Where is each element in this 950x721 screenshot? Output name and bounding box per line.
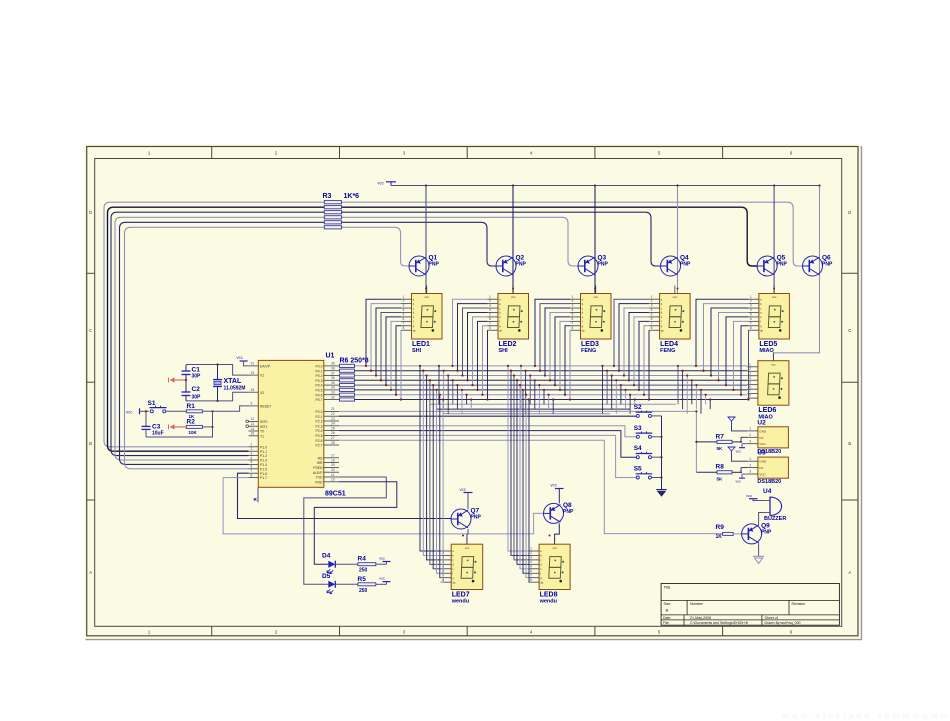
svg-text:vcc: vcc	[237, 355, 243, 360]
svg-text:38: 38	[331, 367, 335, 371]
wires segment taps to LED5 pins	[695, 299, 750, 400]
svg-text:4: 4	[572, 308, 574, 312]
svg-text:vcc: vcc	[425, 295, 430, 299]
svg-text:31: 31	[251, 362, 255, 366]
svg-text:S3: S3	[634, 425, 642, 432]
wire P1.4 net (left bus to R3 row 5 to Q2 base)	[120, 222, 497, 464]
svg-text:vcc: vcc	[511, 295, 516, 299]
transistor Q3 PNP	[578, 255, 608, 277]
svg-text:P0.3: P0.3	[316, 379, 323, 383]
svg-text:R3: R3	[323, 193, 332, 200]
svg-text:S4: S4	[634, 445, 642, 452]
svg-text:PNP: PNP	[680, 262, 691, 268]
wire VCC feed through Q3	[594, 184, 596, 293]
svg-text:PNP: PNP	[516, 262, 527, 268]
svg-text:1: 1	[530, 547, 532, 551]
temperature sensor U3 DS18B20	[747, 450, 788, 486]
svg-text:3: 3	[530, 556, 532, 560]
svg-text:U2: U2	[757, 419, 766, 426]
wire P1.3 net (left bus to R3 row 4 to Q3 base)	[115, 217, 578, 460]
svg-text:2: 2	[651, 299, 653, 303]
svg-text:P0.1: P0.1	[316, 369, 323, 373]
svg-text:27: 27	[331, 436, 335, 440]
svg-text:7: 7	[651, 321, 653, 325]
watermark	[781, 711, 949, 721]
svg-text:TXD: TXD	[316, 476, 323, 480]
transistor Q9 PNP	[742, 522, 772, 544]
wire P1.6 to Q7 base	[238, 473, 452, 518]
svg-text:3: 3	[572, 304, 574, 308]
svg-text:P0.2: P0.2	[316, 374, 323, 378]
svg-text:P0.0: P0.0	[316, 365, 323, 369]
wire TXD to D5	[304, 477, 387, 584]
svg-text:2: 2	[749, 433, 751, 437]
switch S3	[634, 425, 662, 439]
svg-text:8: 8	[572, 326, 574, 330]
svg-text:P1.4: P1.4	[260, 463, 267, 467]
svg-text:PNP: PNP	[598, 262, 609, 268]
svg-text:FENG: FENG	[581, 348, 596, 354]
svg-text:32: 32	[331, 395, 335, 399]
resistor R8 5K	[696, 464, 741, 482]
ground (buzzer)	[753, 556, 764, 563]
svg-text:5: 5	[750, 313, 752, 317]
svg-text:8: 8	[750, 326, 752, 330]
svg-text:39: 39	[331, 362, 335, 366]
capacitor C1 30P	[182, 365, 202, 381]
svg-text:VCC: VCC	[759, 473, 766, 477]
svg-text:vcc: vcc	[772, 295, 777, 299]
buzzer U4	[763, 488, 786, 522]
svg-text:ALE/P: ALE/P	[313, 471, 323, 475]
resistor pack R6 250*8	[340, 358, 369, 402]
resistor R2 10K	[186, 418, 213, 435]
svg-text:250: 250	[359, 588, 368, 594]
svg-text:2: 2	[403, 299, 405, 303]
svg-text:RESET: RESET	[260, 405, 271, 409]
svg-text:7: 7	[749, 389, 751, 393]
svg-text:SHI: SHI	[499, 348, 509, 354]
wire P2.1 to S2	[339, 415, 636, 417]
svg-text:P2.7: P2.7	[316, 444, 323, 448]
svg-text:19: 19	[251, 371, 255, 375]
svg-text:A: A	[89, 570, 92, 575]
svg-text:2: 2	[251, 447, 253, 451]
svg-text:Q6: Q6	[822, 255, 831, 262]
transistor Q5 PNP	[757, 255, 787, 277]
svg-text:PNP: PNP	[471, 515, 482, 521]
svg-text:P2.0: P2.0	[316, 410, 323, 414]
wire Q7 collector to LED7	[462, 529, 468, 544]
svg-text:P1.2: P1.2	[260, 454, 267, 458]
svg-text:3: 3	[750, 304, 752, 308]
svg-text:25: 25	[331, 426, 335, 430]
IC U1 89C51 microcontroller	[246, 353, 346, 498]
svg-text:X1: X1	[260, 374, 264, 378]
wires segment taps to LED1 pins	[365, 299, 402, 400]
svg-text:R9: R9	[716, 524, 725, 531]
svg-text:89C51: 89C51	[325, 491, 346, 498]
transistor Q7 PNP	[451, 508, 481, 530]
svg-text:Title: Title	[664, 586, 671, 590]
svg-text:1K*6: 1K*6	[344, 193, 360, 200]
svg-text:Size: Size	[664, 602, 671, 606]
svg-text:5: 5	[251, 460, 253, 464]
svg-text:I/O: I/O	[759, 436, 764, 440]
svg-text:Q8: Q8	[563, 502, 572, 509]
svg-text:8: 8	[651, 326, 653, 330]
svg-text:PNP: PNP	[777, 262, 788, 268]
wire buzzer to Q9 emitter	[759, 513, 763, 526]
svg-text:LED6: LED6	[758, 407, 776, 414]
wire U3 I/O	[740, 468, 747, 474]
svg-text:Drawn By:wsh*wq_000: Drawn By:wsh*wq_000	[765, 621, 801, 625]
svg-text:2: 2	[530, 551, 532, 555]
svg-text:17: 17	[331, 454, 335, 458]
svg-text:RXD: RXD	[315, 480, 323, 484]
svg-text:Date:: Date:	[663, 616, 671, 620]
wire P1.0 net (left bus to R3 row 1 to Q6 base)	[104, 202, 803, 447]
7-segment display LED2 (SHI)	[488, 286, 529, 355]
svg-text:WR: WR	[317, 461, 323, 465]
wire U2 I/O	[740, 437, 747, 443]
svg-text:8: 8	[489, 326, 491, 330]
svg-text:INT0: INT0	[260, 420, 267, 424]
svg-text:S2: S2	[634, 404, 642, 411]
schematic sheet background	[84, 144, 862, 640]
svg-text:I/O: I/O	[759, 466, 764, 470]
svg-text:vcc: vcc	[673, 295, 678, 299]
svg-text:LED1: LED1	[412, 341, 430, 348]
power VCC (reset)	[126, 408, 149, 414]
svg-text:S1: S1	[148, 400, 156, 407]
svg-text:7: 7	[251, 469, 253, 473]
7-segment display LED6 (MIAO)	[758, 353, 789, 421]
resistor R9 1K	[716, 524, 742, 540]
svg-text:P0.6: P0.6	[316, 393, 323, 397]
capacitor C2 30P	[182, 380, 202, 401]
svg-text:P1.3: P1.3	[260, 459, 267, 463]
svg-text:BUZZER: BUZZER	[764, 516, 786, 522]
wire P1.7 to Q8 base	[223, 478, 543, 534]
svg-text:5: 5	[530, 564, 532, 568]
transistor Q6 PNP	[803, 255, 833, 277]
svg-text:LED3: LED3	[581, 341, 599, 348]
svg-text:3: 3	[749, 371, 751, 375]
svg-text:T1: T1	[260, 434, 264, 438]
svg-text:Q3: Q3	[598, 255, 607, 262]
svg-text:5: 5	[572, 313, 574, 317]
svg-text:2: 2	[572, 299, 574, 303]
wire VCC feed through Q4	[676, 184, 678, 293]
svg-text:LED4: LED4	[660, 341, 678, 348]
svg-text:2: 2	[749, 367, 751, 371]
svg-text:C2: C2	[192, 386, 201, 393]
svg-text:34: 34	[331, 386, 335, 390]
border zone ticks and labels	[87, 147, 858, 636]
transistor Q8 PNP	[544, 502, 574, 524]
svg-text:P0.4: P0.4	[316, 384, 323, 388]
svg-text:10K: 10K	[189, 430, 198, 435]
svg-text:6: 6	[251, 465, 253, 469]
power vcc (Q7)	[460, 487, 473, 509]
svg-text:35: 35	[331, 381, 335, 385]
svg-text:vcc: vcc	[465, 546, 470, 550]
svg-text:6: 6	[489, 317, 491, 321]
svg-text:PNP: PNP	[429, 262, 440, 268]
svg-text:vcc: vcc	[746, 493, 752, 498]
ground (crystal caps)	[169, 377, 188, 382]
svg-text:LED7: LED7	[452, 592, 470, 599]
svg-text:30: 30	[331, 468, 335, 472]
svg-text:wendu: wendu	[539, 599, 557, 605]
svg-text:vcc: vcc	[379, 576, 385, 581]
switch S4	[634, 445, 662, 459]
svg-text:1: 1	[749, 362, 751, 366]
svg-text:4: 4	[403, 308, 405, 312]
svg-text:w w w . e l e c f a n s . c o: w w w . e l e c f a n s . c o m w w w w …	[781, 711, 949, 721]
svg-text:3: 3	[749, 439, 751, 443]
wires segment taps to LED2 pins	[451, 299, 488, 400]
svg-text:P1.7: P1.7	[260, 476, 267, 480]
wire VCC feed through Q5	[773, 184, 775, 293]
svg-text:P2.1: P2.1	[316, 415, 323, 419]
svg-text:3: 3	[651, 304, 653, 308]
svg-text:2: 2	[749, 463, 751, 467]
wires segment taps to LED8 pins	[507, 365, 530, 582]
svg-text:7: 7	[572, 321, 574, 325]
crystal XTAL 11.0592MHz	[213, 363, 245, 402]
svg-text:30P: 30P	[192, 374, 202, 380]
power vcc (U2)	[736, 444, 748, 454]
svg-text:1: 1	[749, 457, 751, 461]
svg-text:2: 2	[750, 299, 752, 303]
svg-text:250: 250	[359, 568, 368, 574]
svg-text:5K: 5K	[717, 476, 724, 481]
svg-text:vcc: vcc	[771, 362, 776, 366]
wire RXD to D4	[314, 482, 397, 564]
power vcc (buzzer)	[746, 493, 763, 500]
svg-text:B: B	[666, 608, 669, 613]
svg-text:P2.3: P2.3	[316, 424, 323, 428]
wire X1 loop	[186, 365, 249, 376]
resistor R7 5K	[696, 433, 741, 451]
svg-text:B: B	[848, 441, 851, 446]
wire P2.0 to sensors	[339, 410, 696, 412]
svg-text:26: 26	[331, 431, 335, 435]
title block	[661, 584, 839, 626]
wire keys common to ground	[660, 416, 662, 490]
svg-text:1: 1	[749, 427, 751, 431]
transistor Q4 PNP	[661, 255, 691, 277]
bus wires P0.0-P0.7 segment lines	[355, 366, 748, 414]
svg-text:1K: 1K	[716, 534, 723, 540]
7-segment display LED8 (wendu)	[529, 536, 571, 605]
svg-text:EA/VP: EA/VP	[260, 365, 271, 369]
svg-text:C3: C3	[152, 423, 161, 430]
diode D4	[322, 553, 335, 574]
wire X2 loop	[186, 392, 249, 401]
resistor R1	[186, 403, 202, 419]
svg-text:XTAL: XTAL	[224, 378, 242, 385]
svg-text:vcc: vcc	[736, 449, 742, 453]
svg-text:R4: R4	[358, 556, 367, 563]
svg-text:37: 37	[331, 371, 335, 375]
svg-text:X2: X2	[260, 391, 264, 395]
svg-text:PNP: PNP	[822, 262, 833, 268]
svg-text:21-May-2008: 21-May-2008	[690, 616, 711, 620]
svg-text:12: 12	[251, 417, 255, 421]
svg-text:7: 7	[403, 321, 405, 325]
svg-text:P1.1: P1.1	[260, 450, 267, 454]
svg-text:4: 4	[251, 456, 253, 460]
svg-text:8: 8	[403, 326, 405, 330]
switch S5	[634, 466, 662, 480]
svg-text:4: 4	[749, 376, 751, 380]
resistor pack R3 1K*6	[323, 193, 360, 229]
svg-text:vcc: vcc	[552, 546, 557, 550]
svg-text:PNP: PNP	[761, 529, 772, 535]
svg-text:P1.6: P1.6	[260, 472, 267, 476]
svg-text:3: 3	[489, 304, 491, 308]
svg-text:6: 6	[750, 317, 752, 321]
svg-text:INT1: INT1	[260, 425, 267, 429]
svg-text:11.0592M: 11.0592M	[224, 386, 246, 392]
svg-text:6: 6	[749, 385, 751, 389]
svg-text:29: 29	[331, 463, 335, 467]
svg-text:vcc: vcc	[736, 480, 742, 484]
svg-text:GND: GND	[759, 429, 767, 433]
svg-text:Q4: Q4	[680, 255, 689, 262]
svg-text:R1: R1	[187, 403, 196, 410]
svg-text:SHI: SHI	[412, 348, 422, 354]
svg-text:Q1: Q1	[429, 255, 438, 262]
ground (U2 GND)	[728, 417, 748, 431]
svg-text:DS18B20: DS18B20	[757, 479, 781, 485]
svg-text:Q5: Q5	[777, 255, 786, 262]
7-segment display LED7 (wendu)	[441, 536, 483, 605]
7-segment display LED5 (MIAO)	[748, 286, 789, 355]
LED6 pin stubs	[747, 362, 758, 398]
svg-text:7: 7	[489, 321, 491, 325]
power VCC above U1 (EA/VP)	[237, 355, 249, 366]
svg-text:1: 1	[572, 295, 574, 299]
svg-text:D5: D5	[322, 573, 331, 580]
svg-text:9: 9	[251, 402, 253, 406]
svg-text:8: 8	[251, 473, 253, 477]
svg-text:5: 5	[489, 313, 491, 317]
svg-text:1: 1	[403, 295, 405, 299]
wires segment taps to LED7 pins	[419, 365, 444, 582]
svg-text:8: 8	[530, 578, 532, 582]
svg-text:U3: U3	[757, 450, 766, 457]
svg-text:36: 36	[331, 376, 335, 380]
svg-text:2: 2	[489, 299, 491, 303]
svg-text:7: 7	[530, 573, 532, 577]
svg-text:wendu: wendu	[451, 599, 469, 605]
ground (U3 GND)	[728, 447, 748, 461]
svg-text:R2: R2	[187, 418, 196, 425]
wire P2.5 to S5	[339, 435, 636, 477]
power vcc (R5)	[379, 576, 391, 585]
svg-text:4: 4	[530, 560, 532, 564]
svg-text:6: 6	[651, 317, 653, 321]
svg-text:U1: U1	[326, 353, 335, 360]
bus staircase junctions between displays	[438, 365, 711, 414]
svg-text:vcc: vcc	[460, 487, 466, 492]
wire VCC feed through Q1	[425, 184, 427, 293]
resistor R4 250	[335, 556, 386, 574]
svg-text:VCC: VCC	[759, 442, 766, 446]
svg-text:11: 11	[331, 473, 335, 477]
svg-text:Number: Number	[690, 602, 704, 606]
svg-text:R7: R7	[716, 433, 725, 440]
svg-text:24: 24	[331, 422, 335, 426]
svg-text:vcc: vcc	[594, 295, 599, 299]
node R (below U1)	[254, 487, 259, 502]
svg-text:6: 6	[530, 569, 532, 573]
svg-text:5: 5	[749, 380, 751, 384]
transistor Q1 PNP	[409, 255, 439, 277]
svg-text:22: 22	[331, 412, 335, 416]
svg-text:P2.2: P2.2	[316, 420, 323, 424]
svg-text:18: 18	[251, 388, 255, 392]
svg-text:R8: R8	[716, 464, 725, 471]
svg-text:PNP: PNP	[563, 509, 574, 515]
svg-text:P0.5: P0.5	[316, 389, 323, 393]
temperature sensor U2 DS18B20	[747, 419, 788, 455]
svg-text:RD: RD	[318, 456, 323, 460]
inner border frame	[95, 159, 842, 627]
svg-text:7: 7	[750, 321, 752, 325]
svg-text:6: 6	[572, 317, 574, 321]
ground (keys)	[656, 490, 666, 497]
svg-text:21: 21	[331, 407, 335, 411]
wire P2.6 to R9 (buzzer drive)	[339, 440, 723, 533]
svg-text:30P: 30P	[192, 395, 202, 401]
svg-text:R5: R5	[358, 576, 367, 583]
svg-text:10: 10	[331, 478, 335, 482]
svg-text:D: D	[848, 210, 851, 215]
wires segment taps to LED3 pins	[534, 299, 571, 400]
svg-text:3: 3	[403, 304, 405, 308]
svg-text:C: C	[89, 328, 92, 333]
svg-text:4: 4	[489, 308, 491, 312]
svg-text:1: 1	[489, 295, 491, 299]
wire Q8 collector to LED8	[549, 523, 560, 544]
svg-text:Revision: Revision	[792, 602, 806, 606]
svg-text:P2.5: P2.5	[316, 434, 323, 438]
svg-text:4: 4	[651, 308, 653, 312]
svg-text:5K: 5K	[717, 446, 724, 451]
svg-text:T0: T0	[260, 430, 264, 434]
svg-text:LED8: LED8	[540, 592, 558, 599]
switch S2	[634, 404, 662, 418]
svg-text:28: 28	[331, 441, 335, 445]
wire R1 to RESET	[202, 406, 248, 413]
svg-text:14: 14	[251, 427, 255, 431]
svg-text:vcc: vcc	[379, 556, 385, 561]
wire Q9 collector to ground	[758, 543, 760, 557]
svg-text:6: 6	[403, 317, 405, 321]
wires segment taps to LED4 pins	[613, 299, 650, 400]
svg-text:16: 16	[331, 458, 335, 462]
svg-text:R6 250*8: R6 250*8	[340, 358, 369, 365]
wire VCC feed through Q6	[773, 184, 820, 360]
7-segment display LED4 (FENG)	[649, 286, 690, 355]
wire P1.2 net (left bus to R3 row 3 to Q4 base)	[111, 212, 661, 455]
svg-text:P1.0: P1.0	[260, 445, 267, 449]
